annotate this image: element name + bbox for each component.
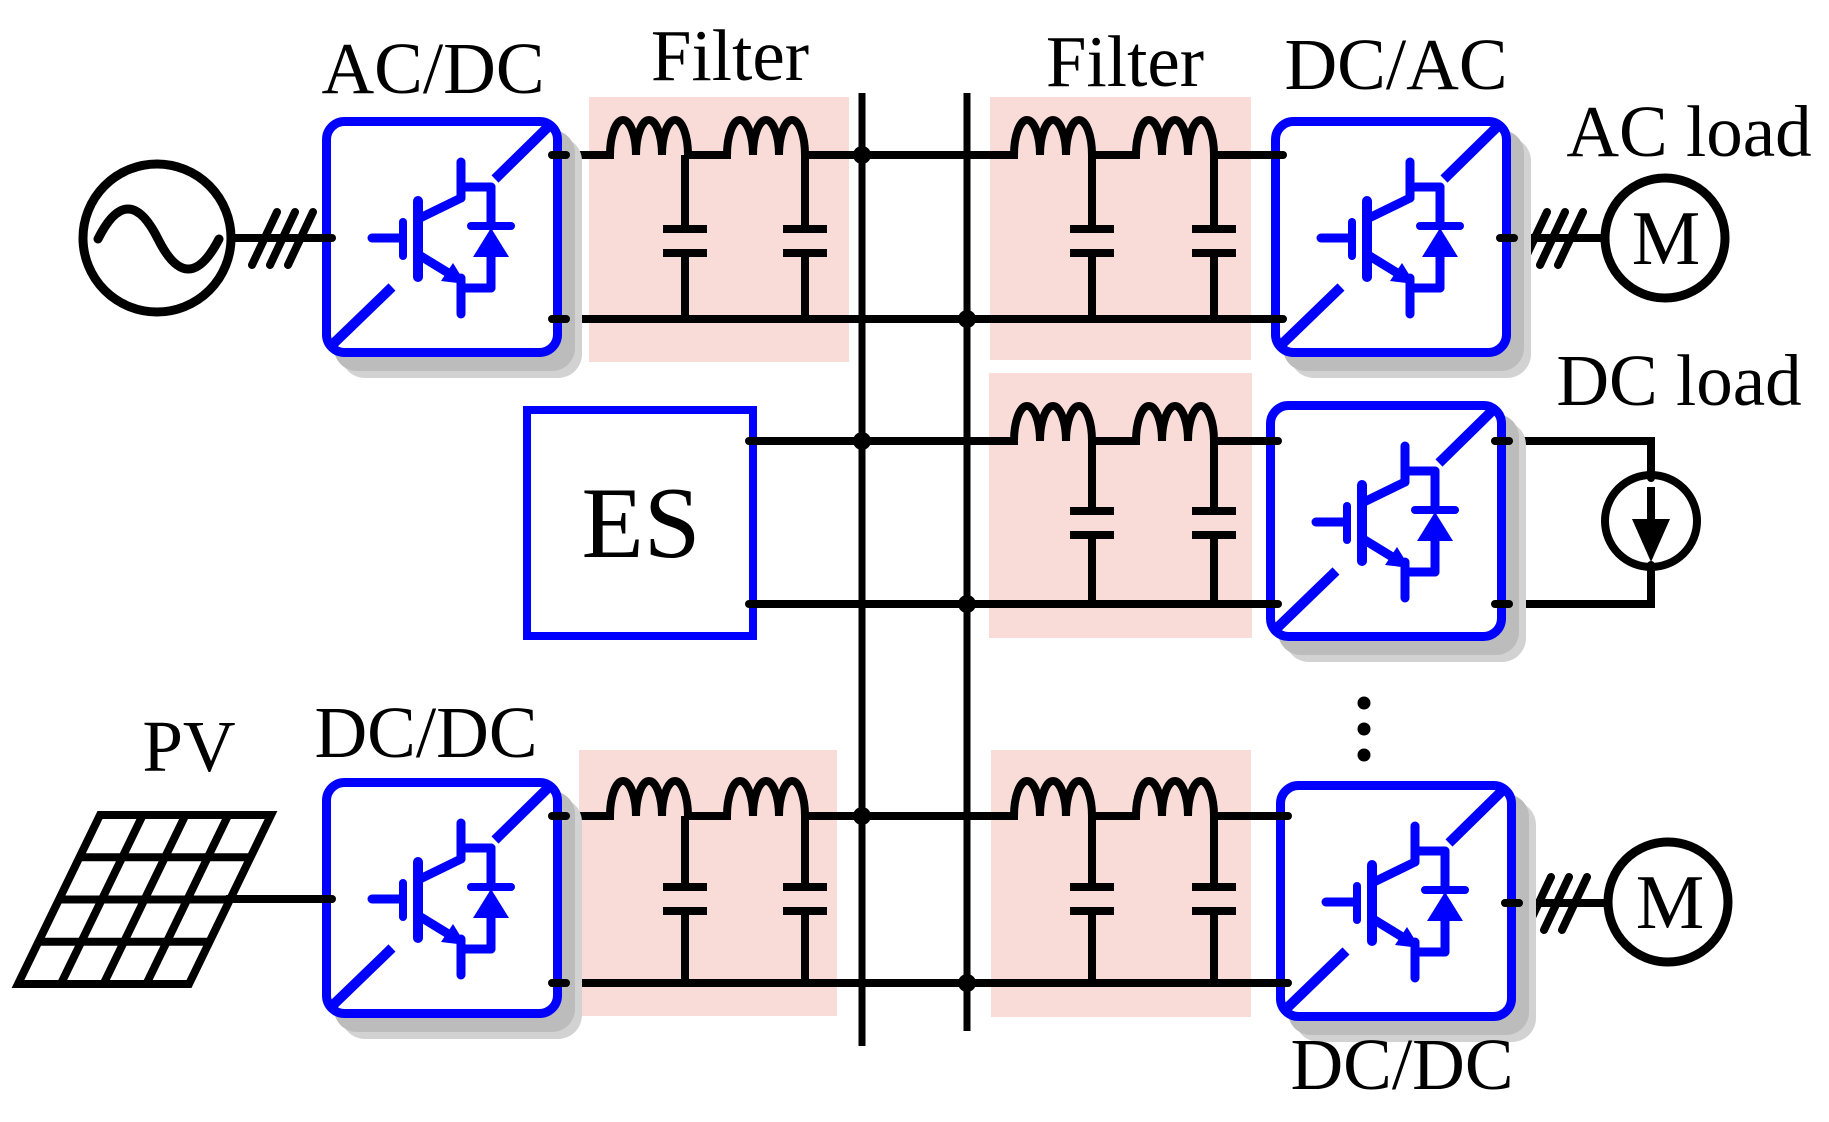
three-phase slash marks (AC load) <box>1522 212 1583 265</box>
capacitor C5 <box>1070 441 1114 604</box>
svg-text:M: M <box>1636 859 1704 945</box>
DC bus negative rail <box>964 93 971 1031</box>
junction node row3 bottom on bus2 <box>958 974 976 992</box>
wire U2 to AC load motor <box>1506 234 1602 242</box>
wire PV to U4 <box>226 895 560 903</box>
wire row3 top with filter inductors L7 L8 L9 L10 <box>558 781 1285 816</box>
wire row3 bottom rail <box>558 979 1285 987</box>
svg-text:Filter: Filter <box>651 15 809 96</box>
wire row1 bottom rail <box>558 315 1275 323</box>
three-phase slash marks <box>252 212 313 265</box>
converter U5 DC/DC (motor) <box>1281 786 1537 1043</box>
bottom motor M2 <box>1608 842 1728 962</box>
DC bus positive rail <box>859 93 866 1046</box>
pink filter highlight box F3 (middle-right) <box>989 373 1252 638</box>
junction node row3 top on bus1 <box>853 807 871 825</box>
ES box <box>527 410 753 636</box>
svg-text:DC/DC: DC/DC <box>314 692 537 773</box>
pink filter highlight box F2 (top-right) <box>990 97 1251 360</box>
pink filter highlight box F4 (bottom-left) <box>579 750 837 1016</box>
wire U3 to DC load top <box>1502 441 1651 478</box>
capacitor C1 <box>663 155 707 319</box>
AC load motor M1 <box>1605 178 1725 298</box>
junction node row2 bottom on bus2 <box>958 595 976 613</box>
wire U5 to motor <box>1512 899 1606 907</box>
capacitor C6 <box>1192 441 1236 604</box>
svg-text:AC/DC: AC/DC <box>321 28 544 109</box>
svg-text:AC load: AC load <box>1566 91 1811 172</box>
capacitor C4 <box>1192 155 1236 319</box>
PV panel <box>18 815 271 984</box>
wire row1 top with filter inductors L1 L2 L3 L4 <box>558 120 1275 155</box>
capacitor C3 <box>1070 155 1114 319</box>
capacitor C8 <box>783 816 827 983</box>
DC load current source <box>1605 475 1697 567</box>
junction node row2 top on bus1 <box>853 432 871 450</box>
capacitor C10 <box>1192 816 1236 983</box>
capacitor C2 <box>783 155 827 319</box>
wire row2 top with filter inductors L5 L6 <box>753 406 1270 441</box>
wire row2 bottom rail <box>753 600 1270 608</box>
svg-text:M: M <box>1632 195 1700 281</box>
wire AC source to AC/DC converter <box>228 234 560 242</box>
capacitor C9 <box>1070 816 1114 983</box>
converter U3 DC/DC (DC load) <box>1271 406 1527 663</box>
pink filter highlight box F1 (top-left) <box>589 97 849 362</box>
three-phase slash marks (bottom motor) <box>1526 877 1587 930</box>
junction node row1 top on bus1 <box>853 146 871 164</box>
pink filter highlight box F5 (bottom-right) <box>991 750 1251 1017</box>
converter U4 DC/DC (PV) <box>327 783 583 1040</box>
converter U1 AC/DC <box>327 122 583 379</box>
vertical ellipsis dots <box>1358 697 1371 710</box>
converter U2 DC/AC <box>1276 122 1532 379</box>
svg-text:DC/AC: DC/AC <box>1284 24 1507 105</box>
svg-text:PV: PV <box>142 706 235 787</box>
junction node row1 bottom on bus2 <box>958 310 976 328</box>
svg-text:DC load: DC load <box>1556 340 1801 421</box>
port stubs over box borders <box>318 155 1519 983</box>
wire U3 to DC load bottom <box>1502 565 1651 604</box>
svg-text:ES: ES <box>581 467 700 580</box>
capacitor C7 <box>663 816 707 983</box>
svg-text:DC/DC: DC/DC <box>1290 1024 1513 1105</box>
AC source G1 <box>83 164 231 312</box>
svg-text:Filter: Filter <box>1046 21 1204 102</box>
